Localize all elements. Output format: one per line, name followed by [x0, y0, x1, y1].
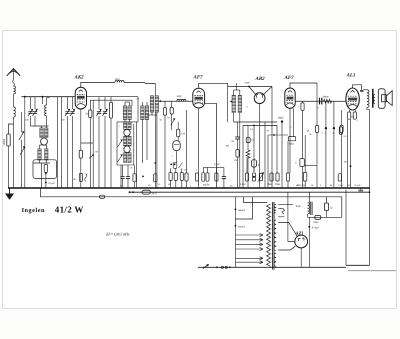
- resistor R17 2M: [276, 173, 279, 181]
- capacitor C21: [126, 176, 130, 178]
- trimmer C7: [104, 97, 106, 109]
- wire end bus: [345, 190, 347, 266]
- junction 50pF: [248, 86, 250, 88]
- resistor R19: [301, 103, 304, 110]
- power transformer T4 primary: [267, 204, 271, 266]
- resistor R28: [338, 174, 341, 181]
- trimmer C5: [72, 97, 74, 109]
- wire osc bottom: [117, 164, 134, 166]
- svg-text:50000: 50000: [3, 138, 6, 145]
- resistor R18: [286, 173, 289, 181]
- svg-text:0,1µF: 0,1µF: [214, 163, 220, 166]
- wire filter right: [341, 197, 343, 218]
- wire HT leads to AZ1: [278, 223, 297, 237]
- svg-text:1Ω: 1Ω: [347, 184, 350, 187]
- mains rail: [198, 266, 346, 268]
- oscillator coil stack: [124, 122, 127, 129]
- wire R1 to bus: [8, 146, 10, 188]
- svg-text:AZ1: AZ1: [295, 230, 304, 235]
- svg-text:50pF: 50pF: [245, 81, 251, 84]
- capacitor C11: [235, 136, 240, 138]
- wire osc right: [133, 124, 135, 165]
- shield box padder: [33, 160, 57, 179]
- wire AF7 anode right: [205, 103, 217, 188]
- wire AB2 cathode: [259, 104, 261, 188]
- band filter coils P1: [123, 106, 127, 119]
- wire anode line 2 drop: [131, 100, 133, 106]
- choke FeW: [308, 192, 310, 202]
- wire AZ1 anode left: [288, 241, 295, 243]
- resistor R8: [180, 173, 183, 181]
- resistor R4: [163, 108, 166, 115]
- tube AL1 output: [346, 88, 359, 110]
- wire AB2 top line: [228, 86, 272, 88]
- chassis ground bus: [8, 187, 370, 189]
- resistor R23 15k: [315, 215, 321, 219]
- cluster detector load: [170, 163, 172, 165]
- svg-text:Ingelen: Ingelen: [22, 207, 45, 214]
- wire grid line AF7: [159, 100, 193, 102]
- switch S1 wave band: [21, 112, 23, 132]
- wire AZ1 cathode down: [300, 248, 302, 267]
- resistor R12: [236, 150, 239, 157]
- svg-text:15kΩ: 15kΩ: [313, 221, 319, 224]
- fuse on mains line: [100, 195, 105, 198]
- T4 secondary winding 3: [274, 253, 276, 266]
- junction cap note: [45, 182, 47, 184]
- coil L1 antenna: [14, 86, 16, 94]
- wire osc grid: [42, 97, 44, 104]
- resistor R2 cathode: [79, 150, 82, 158]
- trimmer C4: [67, 97, 69, 109]
- mains switch: [203, 264, 209, 268]
- resistor R27: [304, 135, 306, 172]
- wire: [24, 97, 26, 188]
- AL1 base components: [348, 110, 350, 112]
- svg-text:FeW: FeW: [295, 205, 302, 208]
- wire primary top lead: [244, 197, 268, 203]
- T3 secondary: [373, 95, 375, 104]
- coil shield box: [110, 102, 113, 118]
- trimmer C6: [98, 97, 100, 109]
- output transformer T3 primary: [367, 90, 369, 108]
- resistor R3 50: [89, 110, 92, 117]
- T4 secondary winding 2 HT: [274, 220, 276, 251]
- capacitor C8: [170, 107, 173, 114]
- switch S2: [20, 147, 25, 156]
- coil L5 1000: [177, 99, 186, 101]
- svg-text:2MΩ: 2MΩ: [267, 183, 272, 186]
- wire transformer down: [367, 108, 370, 266]
- wire: [175, 151, 177, 163]
- scan shadow line: [348, 270, 396, 272]
- junction: [154, 162, 156, 164]
- junction: [369, 191, 371, 193]
- padder trimmer C3: [44, 165, 47, 173]
- svg-text:AF7: AF7: [193, 75, 204, 81]
- coupling cap C15: [319, 98, 320, 105]
- resistor R22 oval: [339, 127, 342, 135]
- svg-text:41/2 W: 41/2 W: [55, 205, 84, 215]
- wire osc left: [116, 122, 118, 165]
- svg-text:0,1µF: 0,1µF: [355, 184, 362, 187]
- resistor R24: [133, 174, 136, 182]
- IF transformer T1 coils: [150, 96, 154, 112]
- rectifier tube AZ1: [295, 235, 308, 248]
- wire AF7b anode output line: [295, 100, 346, 102]
- capacitor block C9: [203, 167, 216, 169]
- wire mid: [273, 134, 275, 136]
- wire AL1 cathode legs: [347, 119, 349, 188]
- resistor R16 2M: [270, 173, 273, 181]
- wire vertical x317: [316, 83, 318, 125]
- tuning gang coils lower: [38, 149, 41, 159]
- resistor R6: [169, 173, 172, 181]
- wire mains line B: [130, 191, 371, 193]
- potentiometer arrow: [259, 173, 262, 181]
- resistor R25: [154, 174, 157, 182]
- wire HT feed vertical: [235, 197, 237, 267]
- switch S4: [118, 155, 123, 163]
- svg-text:1000: 1000: [177, 95, 183, 98]
- svg-text:2MΩ: 2MΩ: [275, 183, 280, 186]
- wire: [92, 100, 94, 143]
- wire antenna down to ground bus: [13, 117, 15, 188]
- wire grid line AK2: [22, 96, 76, 98]
- wire verticals AB2 area: [242, 125, 244, 188]
- wire choke down: [307, 214, 309, 217]
- svg-text:AL1: AL1: [346, 72, 356, 78]
- diode valve small: [173, 141, 180, 151]
- svg-text:4Ω5mF: 4Ω5mF: [238, 209, 246, 212]
- svg-text:4Ω: 4Ω: [296, 184, 299, 187]
- tuning gang coils upper: [31, 125, 49, 127]
- coil L3: [45, 105, 47, 116]
- capacitor C14 box: [300, 159, 304, 167]
- T4 secondary winding 1: [274, 205, 276, 214]
- svg-text:1Ω: 1Ω: [302, 184, 305, 187]
- resistor R21 oval: [341, 110, 343, 125]
- grid resistor R20 zigzag: [324, 99, 332, 103]
- wire AK2 cathode down: [80, 109, 82, 150]
- tube AF7 first: [193, 88, 205, 108]
- svg-text:4Ω3W: 4Ω3W: [203, 183, 210, 186]
- primary tap lines: [236, 233, 264, 236]
- resistor R11: [215, 173, 218, 181]
- capacitor C17: [333, 101, 335, 127]
- padder cap circle: [41, 138, 48, 145]
- wire filter bottom: [308, 216, 342, 218]
- wire AL1 top cap: [353, 85, 362, 90]
- junction: [129, 191, 131, 193]
- wire AF7 cathode: [198, 108, 200, 188]
- resistor R1 50000: [7, 134, 10, 146]
- tap line 6: [236, 261, 264, 264]
- svg-text:4Ω: 4Ω: [344, 161, 347, 164]
- svg-text:30-5: 30-5: [152, 193, 158, 196]
- wire filter top: [326, 197, 328, 203]
- wire AK2 anode lines right: [87, 96, 139, 98]
- switch S5: [171, 119, 175, 126]
- svg-text:AK2: AK2: [74, 75, 85, 81]
- svg-text:4Ω5mF: 4Ω5mF: [238, 226, 246, 229]
- resistor R7: [174, 173, 177, 181]
- capacitor C19 box: [324, 203, 328, 210]
- wire mains line C: [41, 188, 342, 197]
- wire: [46, 116, 48, 126]
- capacitor C12 box: [246, 138, 250, 143]
- svg-text:8+8µF: 8+8µF: [312, 226, 320, 229]
- svg-text:0,1/50: 0,1/50: [240, 183, 247, 186]
- wire: [120, 165, 122, 188]
- capacitor C16: [325, 101, 327, 127]
- junction: [253, 125, 255, 127]
- wire top line: [124, 82, 155, 83]
- tube AF7 second: [285, 88, 295, 108]
- wire AF7b top cap: [290, 83, 317, 88]
- wire to R1: [9, 124, 14, 134]
- wire: [154, 112, 156, 188]
- svg-text:1/2W: 1/2W: [338, 184, 344, 187]
- coil L2 antenna: [14, 107, 16, 117]
- zigzag resistor R13: [246, 150, 250, 158]
- wire AK2 top cap: [81, 82, 115, 87]
- wire: [302, 110, 304, 158]
- wire filter bottoms: [124, 120, 126, 122]
- speaker cone: [386, 91, 392, 106]
- speaker magnet: [382, 95, 387, 102]
- tap line long: [236, 257, 264, 260]
- svg-text:J: J: [325, 132, 326, 135]
- svg-text:a: a: [119, 125, 120, 128]
- fuse Si: [142, 190, 150, 194]
- svg-text:100pF: 100pF: [278, 117, 285, 120]
- wire AB2 diode leads: [249, 87, 256, 95]
- band filter coils P2: [141, 106, 145, 119]
- tube AB2 duodiode: [254, 93, 265, 104]
- wire AF7 top cap: [199, 83, 228, 88]
- resistor R10: [195, 173, 198, 181]
- wire avc line: [234, 121, 277, 123]
- junction arrow: [92, 154, 94, 156]
- IF transformer T2 coils: [232, 95, 236, 111]
- ground symbol: [9, 188, 11, 194]
- svg-text:Fe: Fe: [330, 184, 332, 187]
- svg-text:1000: 1000: [115, 78, 121, 81]
- junction: [24, 96, 26, 98]
- capacitor C13: [253, 176, 255, 178]
- wire AK2 anode to filter: [137, 97, 139, 122]
- T4 core: [271, 202, 273, 270]
- wire AF7b screen: [293, 108, 295, 136]
- wire AF7b cathode: [289, 108, 291, 173]
- coil L4 on top line: [115, 80, 124, 82]
- wire down to IF1: [154, 84, 156, 96]
- svg-text:50000: 50000: [323, 95, 330, 98]
- svg-text:AF7: AF7: [284, 75, 295, 81]
- resistor R9: [185, 173, 188, 181]
- resistor R15: [245, 173, 248, 181]
- capacitor C20: [120, 176, 124, 178]
- wire secondary taps: [278, 204, 293, 206]
- trimmer C2: [34, 97, 36, 109]
- wire screen feeds: [57, 97, 59, 188]
- resistor R5 1M: [177, 129, 180, 137]
- volume pot box: [251, 160, 256, 168]
- tube AK2: [75, 87, 86, 109]
- antenna: [7, 69, 20, 76]
- trimmer C1: [30, 97, 32, 109]
- svg-text:ZF=128,5 kHz: ZF=128,5 kHz: [106, 232, 130, 237]
- wire loop to cap: [236, 197, 253, 219]
- thick cap top: [281, 120, 283, 122]
- svg-text:1MΩ: 1MΩ: [289, 143, 294, 146]
- loudspeaker body: [378, 89, 385, 109]
- mains plug contacts: [216, 266, 218, 268]
- resistor R14 1M horizontal: [288, 137, 295, 141]
- wire: [13, 94, 15, 107]
- capacitor C10: [222, 176, 226, 178]
- svg-text:Ω: Ω: [331, 206, 333, 209]
- svg-text:0,1µF: 0,1µF: [49, 182, 56, 185]
- T3 core: [372, 89, 374, 108]
- svg-text:AB2: AB2: [255, 76, 266, 82]
- junction: [142, 176, 144, 178]
- junction: [160, 100, 162, 102]
- wire coil returns: [39, 160, 41, 163]
- switch S3: [118, 140, 123, 148]
- wire bottom rail right: [346, 264, 369, 266]
